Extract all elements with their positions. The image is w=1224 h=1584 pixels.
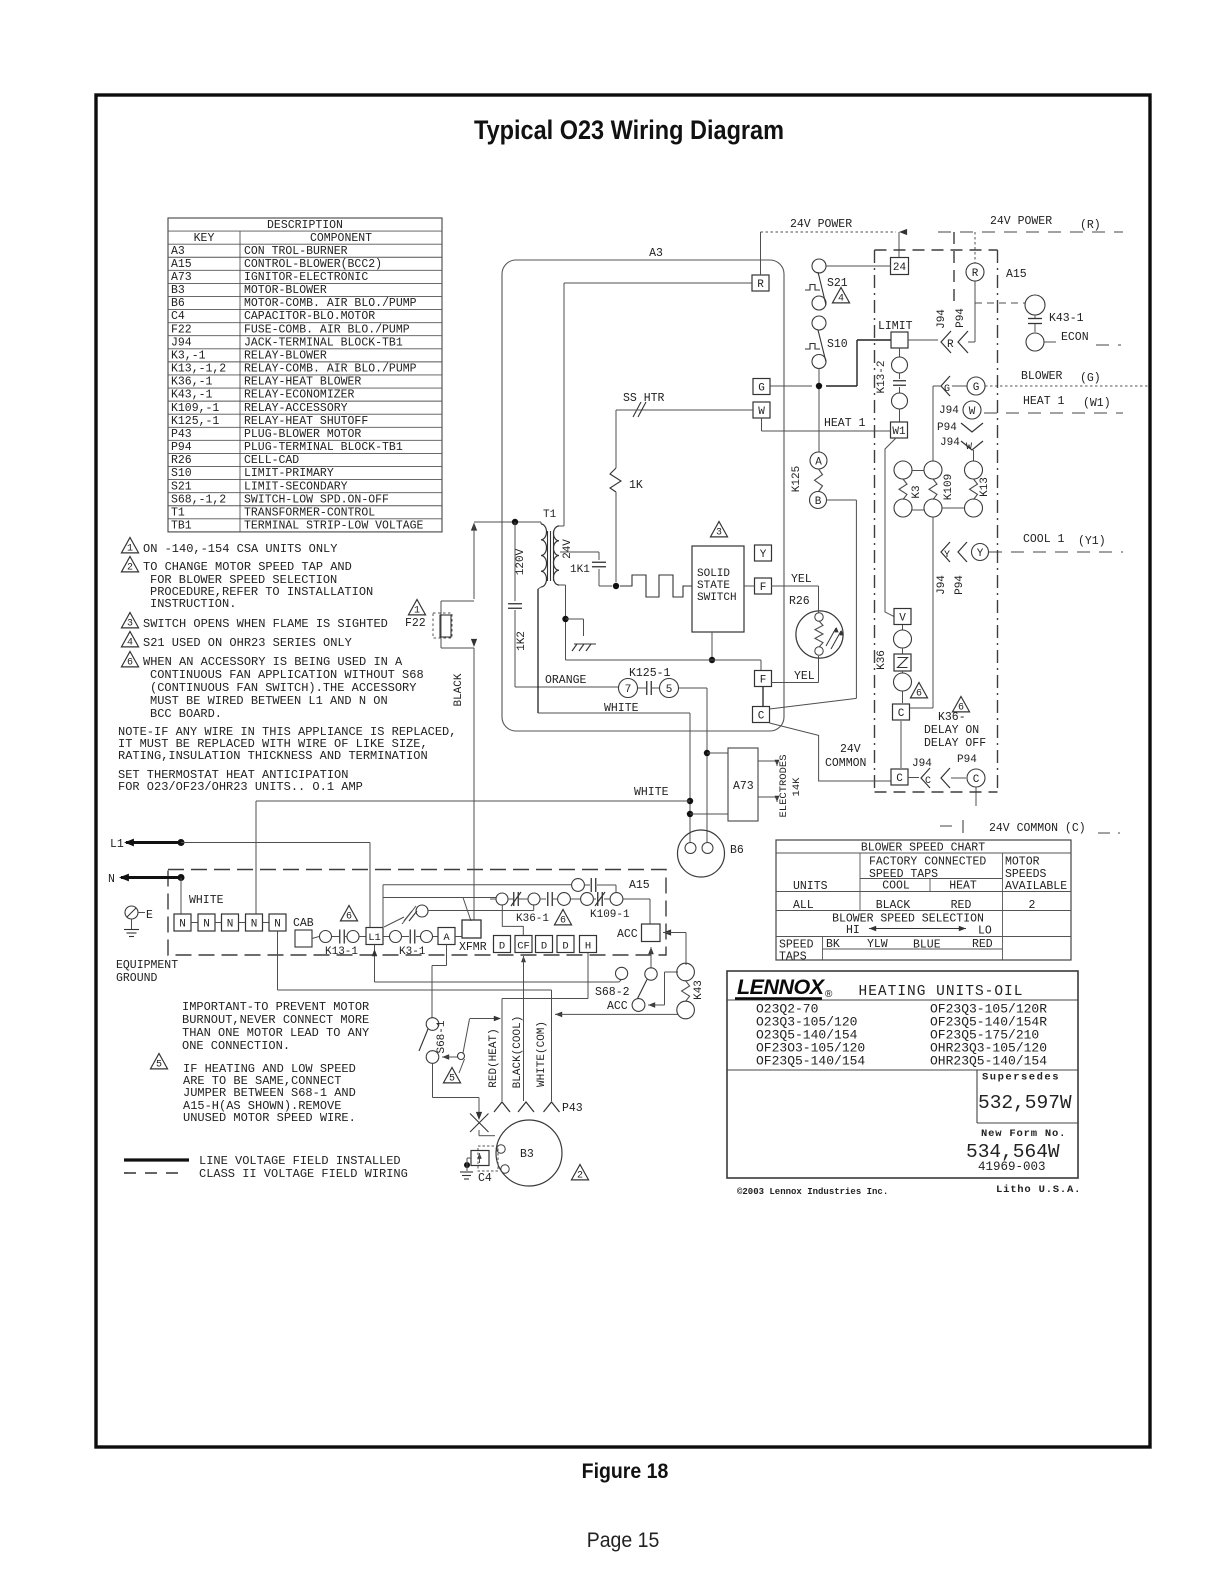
svg-text:RELAY-ACCESSORY: RELAY-ACCESSORY bbox=[244, 402, 348, 415]
svg-text:©2003 Lennox Industries Inc.: ©2003 Lennox Industries Inc. bbox=[737, 1187, 888, 1197]
svg-text:A73: A73 bbox=[733, 780, 754, 793]
svg-text:Y: Y bbox=[760, 549, 767, 561]
svg-text:TB1: TB1 bbox=[171, 520, 192, 533]
svg-text:UNUSED MOTOR SPEED WIRE.: UNUSED MOTOR SPEED WIRE. bbox=[183, 1111, 356, 1125]
svg-text:K109-1: K109-1 bbox=[590, 909, 630, 921]
svg-text:A3: A3 bbox=[171, 245, 185, 258]
svg-text:2: 2 bbox=[1029, 899, 1036, 912]
svg-text:K13,-1,2: K13,-1,2 bbox=[171, 363, 226, 376]
svg-text:K3: K3 bbox=[911, 485, 923, 498]
svg-text:L1: L1 bbox=[368, 932, 381, 944]
svg-text:K125: K125 bbox=[791, 466, 803, 492]
svg-text:2: 2 bbox=[577, 1170, 583, 1181]
svg-text:ECON: ECON bbox=[1061, 331, 1089, 344]
svg-text:RATING,INSULATION THICKNESS AN: RATING,INSULATION THICKNESS AND TERMINAT… bbox=[118, 749, 428, 763]
svg-text:CLASS II VOLTAGE FIELD WIRING: CLASS II VOLTAGE FIELD WIRING bbox=[199, 1167, 408, 1181]
svg-text:(G): (G) bbox=[1080, 372, 1101, 385]
svg-text:C4: C4 bbox=[171, 310, 185, 323]
svg-text:JACK-TERMINAL BLOCK-TB1: JACK-TERMINAL BLOCK-TB1 bbox=[244, 336, 403, 349]
svg-text:D: D bbox=[499, 941, 505, 953]
svg-text:ACC: ACC bbox=[617, 928, 638, 941]
svg-text:P43: P43 bbox=[562, 1102, 583, 1115]
svg-text:K125,-1: K125,-1 bbox=[171, 415, 219, 428]
svg-text:N: N bbox=[179, 919, 186, 931]
svg-text:R: R bbox=[947, 339, 954, 351]
svg-text:CAB: CAB bbox=[293, 917, 314, 930]
svg-text:24V COMMON (C): 24V COMMON (C) bbox=[989, 822, 1086, 835]
svg-text:LINE VOLTAGE FIELD INSTALLED: LINE VOLTAGE FIELD INSTALLED bbox=[199, 1154, 401, 1168]
svg-text:IGNITOR-ELECTRONIC: IGNITOR-ELECTRONIC bbox=[244, 271, 368, 284]
svg-text:D: D bbox=[562, 941, 568, 953]
svg-text:FACTORY CONNECTED: FACTORY CONNECTED bbox=[869, 856, 986, 869]
svg-text:R26: R26 bbox=[171, 454, 192, 467]
svg-text:LIMIT-PRIMARY: LIMIT-PRIMARY bbox=[244, 467, 334, 480]
svg-text:F22: F22 bbox=[405, 617, 426, 630]
svg-text:1: 1 bbox=[414, 605, 420, 616]
svg-text:BCC BOARD.: BCC BOARD. bbox=[150, 707, 222, 721]
svg-text:OHR23Q5-140/154: OHR23Q5-140/154 bbox=[930, 1054, 1047, 1069]
svg-text:Typical O23 Wiring Diagram: Typical O23 Wiring Diagram bbox=[474, 115, 784, 145]
svg-text:A3: A3 bbox=[649, 247, 663, 260]
svg-text:J94: J94 bbox=[936, 575, 948, 595]
svg-text:K43: K43 bbox=[693, 980, 705, 1000]
svg-text:1K1: 1K1 bbox=[570, 564, 590, 576]
svg-text:COMMON: COMMON bbox=[825, 757, 866, 770]
svg-text:HEAT 1: HEAT 1 bbox=[1023, 395, 1065, 408]
svg-text:V: V bbox=[899, 612, 906, 624]
svg-text:S10: S10 bbox=[827, 338, 848, 351]
svg-text:A: A bbox=[443, 932, 450, 944]
svg-text:WHITE(COM): WHITE(COM) bbox=[536, 1021, 548, 1087]
svg-text:ONE CONNECTION.: ONE CONNECTION. bbox=[182, 1039, 290, 1053]
svg-text:COOL 1: COOL 1 bbox=[1023, 533, 1065, 546]
svg-text:WHITE: WHITE bbox=[634, 786, 669, 799]
svg-text:R: R bbox=[757, 279, 764, 291]
svg-text:PLUG-TERMINAL BLOCK-TB1: PLUG-TERMINAL BLOCK-TB1 bbox=[244, 441, 403, 454]
svg-text:RED(HEAT): RED(HEAT) bbox=[488, 1028, 500, 1087]
svg-text:K13-2: K13-2 bbox=[876, 360, 888, 393]
svg-text:SS HTR: SS HTR bbox=[623, 392, 665, 405]
svg-text:COMPONENT: COMPONENT bbox=[310, 232, 372, 245]
svg-text:TAPS: TAPS bbox=[779, 951, 807, 964]
svg-text:N: N bbox=[274, 919, 281, 931]
svg-text:HEAT 1: HEAT 1 bbox=[824, 417, 866, 430]
svg-text:W1: W1 bbox=[892, 426, 906, 438]
svg-text:TO CHANGE MOTOR SPEED TAP AND: TO CHANGE MOTOR SPEED TAP AND bbox=[143, 560, 352, 574]
svg-text:CELL-CAD: CELL-CAD bbox=[244, 454, 299, 467]
svg-text:5: 5 bbox=[156, 1059, 162, 1070]
svg-text:DELAY ON: DELAY ON bbox=[924, 724, 979, 737]
svg-text:A15: A15 bbox=[629, 879, 650, 892]
svg-text:P94: P94 bbox=[171, 441, 192, 454]
svg-text:D: D bbox=[541, 941, 547, 953]
svg-text:T1: T1 bbox=[171, 506, 185, 519]
svg-text:INSTRUCTION.: INSTRUCTION. bbox=[150, 597, 236, 611]
svg-text:GROUND: GROUND bbox=[116, 972, 158, 985]
svg-text:DESCRIPTION: DESCRIPTION bbox=[267, 219, 343, 232]
svg-text:24V POWER: 24V POWER bbox=[990, 215, 1052, 228]
svg-text:Litho U.S.A.: Litho U.S.A. bbox=[996, 1184, 1081, 1196]
svg-text:CONTINUOUS FAN APPLICATION WIT: CONTINUOUS FAN APPLICATION WITHOUT S68 bbox=[150, 668, 424, 682]
svg-text:P43: P43 bbox=[171, 428, 192, 441]
svg-text:RED: RED bbox=[972, 938, 993, 951]
svg-text:ALL: ALL bbox=[793, 899, 814, 912]
svg-text:K13: K13 bbox=[979, 477, 991, 497]
svg-text:1: 1 bbox=[127, 543, 133, 554]
svg-text:K36-: K36- bbox=[938, 711, 966, 724]
svg-text:7: 7 bbox=[625, 684, 632, 696]
svg-text:BLACK: BLACK bbox=[876, 899, 911, 912]
svg-text:P94: P94 bbox=[955, 308, 967, 328]
svg-text:532,597W: 532,597W bbox=[978, 1092, 1072, 1114]
svg-text:IMPORTANT-TO PREVENT MOTOR: IMPORTANT-TO PREVENT MOTOR bbox=[182, 1000, 369, 1014]
svg-text:AVAILABLE: AVAILABLE bbox=[1005, 880, 1067, 893]
svg-text:Y: Y bbox=[977, 548, 984, 560]
svg-text:4: 4 bbox=[127, 637, 133, 648]
svg-text:L1: L1 bbox=[110, 838, 124, 851]
svg-text:K13-1: K13-1 bbox=[325, 946, 358, 958]
svg-text:B6: B6 bbox=[730, 844, 744, 857]
svg-text:B6: B6 bbox=[171, 297, 185, 310]
svg-text:F: F bbox=[760, 582, 767, 594]
svg-text:C: C bbox=[973, 774, 980, 786]
svg-text:T1: T1 bbox=[543, 509, 557, 521]
svg-text:R: R bbox=[972, 268, 979, 280]
svg-text:J94: J94 bbox=[936, 309, 948, 329]
svg-text:A15: A15 bbox=[171, 258, 192, 271]
svg-text:A15: A15 bbox=[1006, 268, 1027, 281]
svg-text:CAPACITOR-BLO.MOTOR: CAPACITOR-BLO.MOTOR bbox=[244, 310, 375, 323]
svg-text:K3,-1: K3,-1 bbox=[171, 349, 206, 362]
svg-text:Page 15: Page 15 bbox=[587, 1528, 660, 1552]
svg-text:S68-1: S68-1 bbox=[436, 1020, 448, 1053]
svg-text:24: 24 bbox=[893, 262, 907, 274]
svg-text:(R): (R) bbox=[1080, 219, 1101, 232]
svg-text:41969-003: 41969-003 bbox=[978, 1160, 1046, 1174]
svg-text:6: 6 bbox=[916, 688, 922, 699]
svg-text:LO: LO bbox=[978, 925, 992, 938]
svg-text:FOR O23/OF23/OHR23 UNITS.. O.1: FOR O23/OF23/OHR23 UNITS.. O.1 AMP bbox=[118, 780, 363, 794]
svg-text:WHEN AN ACCESSORY IS BEING USE: WHEN AN ACCESSORY IS BEING USED IN A bbox=[143, 655, 403, 669]
svg-text:OF23Q5-140/154: OF23Q5-140/154 bbox=[756, 1054, 865, 1069]
svg-text:SOLID: SOLID bbox=[697, 568, 730, 580]
svg-text:BLACK: BLACK bbox=[453, 673, 465, 706]
svg-text:XFMR: XFMR bbox=[459, 941, 487, 954]
svg-text:BK: BK bbox=[826, 938, 840, 951]
svg-text:COOL: COOL bbox=[882, 880, 910, 893]
svg-text:G: G bbox=[758, 382, 765, 394]
svg-text:TRANSFORMER-CONTROL: TRANSFORMER-CONTROL bbox=[244, 506, 375, 519]
svg-text:ACC: ACC bbox=[607, 1000, 628, 1013]
svg-text:J94: J94 bbox=[171, 336, 192, 349]
svg-text:C: C bbox=[758, 710, 765, 722]
svg-text:RELAY-COMB. AIR BLO./PUMP: RELAY-COMB. AIR BLO./PUMP bbox=[244, 363, 417, 376]
svg-text:4: 4 bbox=[838, 293, 844, 304]
svg-text:YLW: YLW bbox=[867, 938, 888, 951]
svg-text:SWITCH-LOW SPD.ON-OFF: SWITCH-LOW SPD.ON-OFF bbox=[244, 493, 389, 506]
svg-text:6: 6 bbox=[560, 915, 566, 926]
svg-text:SWITCH: SWITCH bbox=[697, 592, 737, 604]
svg-text:RELAY-HEAT SHUTOFF: RELAY-HEAT SHUTOFF bbox=[244, 415, 368, 428]
svg-text:6: 6 bbox=[346, 911, 352, 922]
svg-text:S68,-1,2: S68,-1,2 bbox=[171, 493, 226, 506]
svg-text:N: N bbox=[227, 919, 234, 931]
svg-text:R26: R26 bbox=[789, 595, 810, 608]
svg-text:BURNOUT,NEVER CONNECT MORE: BURNOUT,NEVER CONNECT MORE bbox=[182, 1013, 369, 1027]
svg-text:DELAY OFF: DELAY OFF bbox=[924, 737, 986, 750]
svg-text:K3-1: K3-1 bbox=[399, 946, 426, 958]
svg-text:W: W bbox=[966, 442, 972, 453]
svg-text:24V: 24V bbox=[562, 539, 574, 559]
svg-text:ON -140,-154 CSA UNITS ONLY: ON -140,-154 CSA UNITS ONLY bbox=[143, 542, 337, 556]
svg-text:LIMIT: LIMIT bbox=[878, 320, 913, 333]
svg-text:3: 3 bbox=[127, 618, 133, 629]
svg-text:K109: K109 bbox=[943, 474, 955, 500]
svg-text:CON TROL-BURNER: CON TROL-BURNER bbox=[244, 245, 348, 258]
svg-text:B3: B3 bbox=[520, 1148, 534, 1161]
svg-text:3: 3 bbox=[716, 527, 722, 538]
svg-text:RELAY-ECONOMIZER: RELAY-ECONOMIZER bbox=[244, 389, 355, 402]
svg-text:24V: 24V bbox=[840, 743, 861, 756]
svg-text:S21 USED ON OHR23 SERIES ONLY: S21 USED ON OHR23 SERIES ONLY bbox=[143, 636, 352, 650]
svg-text:(Y1): (Y1) bbox=[1078, 535, 1106, 548]
svg-text:RELAY-BLOWER: RELAY-BLOWER bbox=[244, 349, 327, 362]
svg-text:N: N bbox=[108, 873, 115, 886]
svg-text:G: G bbox=[944, 384, 950, 395]
svg-text:HEAT: HEAT bbox=[949, 880, 977, 893]
svg-text:C: C bbox=[898, 708, 905, 720]
svg-text:EQUIPMENT: EQUIPMENT bbox=[116, 959, 178, 972]
svg-text:1K: 1K bbox=[629, 479, 643, 492]
svg-text:FUSE-COMB. AIR BLO./PUMP: FUSE-COMB. AIR BLO./PUMP bbox=[244, 323, 410, 336]
svg-text:THAN ONE MOTOR LEAD TO ANY: THAN ONE MOTOR LEAD TO ANY bbox=[182, 1026, 369, 1040]
svg-text:H: H bbox=[585, 941, 591, 953]
svg-text:ELECTRODES: ELECTRODES bbox=[778, 754, 790, 817]
svg-text:HI: HI bbox=[846, 924, 860, 937]
svg-text:J94: J94 bbox=[940, 437, 960, 449]
svg-text:SWITCH OPENS WHEN FLAME IS SIG: SWITCH OPENS WHEN FLAME IS SIGHTED bbox=[143, 617, 388, 631]
svg-text:N: N bbox=[251, 919, 258, 931]
svg-text:F: F bbox=[760, 674, 767, 686]
svg-text:YEL: YEL bbox=[791, 573, 812, 586]
svg-text:KEY: KEY bbox=[194, 232, 215, 245]
svg-text:J94: J94 bbox=[939, 405, 959, 417]
svg-text:JUMPER BETWEEN S68-1 AND: JUMPER BETWEEN S68-1 AND bbox=[183, 1086, 356, 1100]
svg-text:STATE: STATE bbox=[697, 580, 730, 592]
svg-text:S21: S21 bbox=[171, 480, 192, 493]
svg-text:BLOWER: BLOWER bbox=[1021, 370, 1063, 383]
svg-text:2: 2 bbox=[127, 562, 133, 573]
svg-text:A: A bbox=[815, 456, 822, 468]
svg-text:®: ® bbox=[825, 989, 833, 1000]
svg-text:W: W bbox=[969, 406, 976, 418]
svg-text:G: G bbox=[973, 382, 980, 394]
svg-text:K43,-1: K43,-1 bbox=[171, 389, 213, 402]
svg-text:(W1): (W1) bbox=[1083, 397, 1111, 410]
svg-text:C: C bbox=[896, 773, 903, 785]
svg-text:C: C bbox=[925, 776, 931, 787]
svg-text:MUST BE WIRED BETWEEN L1 AND N: MUST BE WIRED BETWEEN L1 AND N ON bbox=[150, 694, 388, 708]
svg-text:B3: B3 bbox=[171, 284, 185, 297]
svg-text:PLUG-BLOWER MOTOR: PLUG-BLOWER MOTOR bbox=[244, 428, 361, 441]
svg-text:K36: K36 bbox=[876, 650, 888, 670]
svg-text:TERMINAL STRIP-LOW VOLTAGE: TERMINAL STRIP-LOW VOLTAGE bbox=[244, 520, 424, 533]
svg-text:S10: S10 bbox=[171, 467, 192, 480]
svg-text:K36,-1: K36,-1 bbox=[171, 376, 213, 389]
svg-text:(CONTINUOUS FAN SWITCH).THE AC: (CONTINUOUS FAN SWITCH).THE ACCESSORY bbox=[150, 681, 416, 695]
svg-text:HEATING UNITS-OIL: HEATING UNITS-OIL bbox=[859, 984, 1024, 1000]
svg-text:P94: P94 bbox=[954, 575, 966, 595]
svg-text:P94: P94 bbox=[937, 422, 957, 434]
svg-text:P94: P94 bbox=[957, 754, 977, 766]
svg-text:1K2: 1K2 bbox=[516, 631, 528, 651]
svg-text:WHITE: WHITE bbox=[189, 894, 224, 907]
svg-text:UNITS: UNITS bbox=[793, 880, 828, 893]
svg-text:K36-1: K36-1 bbox=[516, 913, 549, 925]
svg-text:S68-2: S68-2 bbox=[595, 986, 630, 999]
svg-text:K109,-1: K109,-1 bbox=[171, 402, 219, 415]
svg-text:E: E bbox=[146, 909, 153, 922]
svg-text:Supersedes: Supersedes bbox=[982, 1072, 1060, 1084]
svg-text:24V POWER: 24V POWER bbox=[790, 218, 852, 231]
svg-text:YEL: YEL bbox=[794, 670, 815, 683]
svg-text:B: B bbox=[815, 496, 822, 508]
svg-text:LENNOX: LENNOX bbox=[737, 975, 826, 999]
svg-text:LIMIT-SECONDARY: LIMIT-SECONDARY bbox=[244, 480, 348, 493]
svg-text:MOTOR-BLOWER: MOTOR-BLOWER bbox=[244, 284, 327, 297]
svg-text:14K: 14K bbox=[791, 777, 803, 797]
svg-text:CONTROL-BLOWER(BCC2): CONTROL-BLOWER(BCC2) bbox=[244, 258, 382, 271]
svg-text:F22: F22 bbox=[171, 323, 192, 336]
svg-text:RELAY-HEAT BLOWER: RELAY-HEAT BLOWER bbox=[244, 376, 361, 389]
svg-text:RED: RED bbox=[951, 899, 972, 912]
svg-text:W: W bbox=[758, 406, 765, 418]
svg-text:K125-1: K125-1 bbox=[629, 667, 671, 680]
svg-text:ORANGE: ORANGE bbox=[545, 674, 587, 687]
svg-text:Y: Y bbox=[944, 550, 950, 561]
svg-text:K43-1: K43-1 bbox=[1049, 312, 1084, 325]
svg-text:5: 5 bbox=[666, 684, 673, 696]
svg-text:A73: A73 bbox=[171, 271, 192, 284]
svg-text:C4: C4 bbox=[478, 1172, 492, 1185]
svg-text:MOTOR: MOTOR bbox=[1005, 856, 1040, 869]
svg-text:120V: 120V bbox=[515, 548, 527, 575]
svg-text:New Form No.: New Form No. bbox=[981, 1128, 1066, 1140]
svg-text:Figure 18: Figure 18 bbox=[582, 1459, 669, 1483]
svg-text:N: N bbox=[203, 919, 210, 931]
svg-text:6: 6 bbox=[127, 657, 133, 668]
svg-text:CF: CF bbox=[517, 941, 530, 953]
svg-text:5: 5 bbox=[449, 1073, 455, 1084]
svg-text:BLOWER SPEED CHART: BLOWER SPEED CHART bbox=[861, 842, 985, 855]
svg-text:BLUE: BLUE bbox=[913, 939, 941, 952]
svg-text:MOTOR-COMB. AIR BLO./PUMP: MOTOR-COMB. AIR BLO./PUMP bbox=[244, 297, 417, 310]
svg-text:BLACK(COOL): BLACK(COOL) bbox=[512, 1016, 524, 1089]
svg-text:S21: S21 bbox=[827, 277, 848, 290]
